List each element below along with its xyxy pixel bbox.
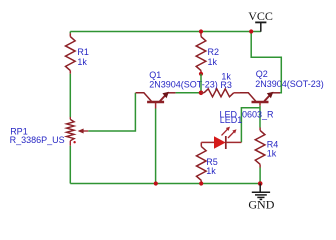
svg-text:R2: R2: [208, 47, 220, 57]
svg-text:LED1: LED1: [220, 115, 243, 125]
wire Q1 emitter to node: [176, 92, 199, 94]
potentiometer RP1: [67, 117, 75, 146]
wire left rail mid (R1 to RP1): [69, 74, 71, 117]
junction R2 top on rail: [199, 29, 203, 33]
svg-text:GND: GND: [248, 197, 274, 211]
svg-text:1k: 1k: [267, 148, 277, 158]
svg-text:VCC: VCC: [248, 9, 273, 23]
wire left rail lower (RP1 to bottom corner): [69, 146, 71, 184]
junction R5 bottom rail: [199, 181, 203, 185]
ground GND: [252, 184, 270, 200]
junction VCC branch on top rail: [249, 29, 253, 33]
LED emission arrow 2: [228, 129, 237, 138]
svg-text:0603_R: 0603_R: [242, 109, 274, 119]
resistor R5: [197, 142, 207, 183]
junction R2 bottom: [199, 72, 203, 76]
wire R2 bottom to emitter node: [200, 74, 202, 93]
wire Q2 emitter to VCC riser: [251, 32, 281, 93]
wire base node jog to LED cathode: [241, 108, 260, 143]
transistor Q1: [136, 92, 176, 109]
wire top rail: [70, 31, 260, 33]
svg-text:R_3386P_US: R_3386P_US: [10, 135, 65, 145]
svg-text:1k: 1k: [208, 57, 218, 67]
svg-text:1k: 1k: [77, 57, 87, 67]
LED emission arrow 1: [222, 127, 231, 136]
RP1 pin1 marker dot: [73, 141, 75, 143]
wire RP1 wiper to Q1 collector riser: [88, 93, 135, 131]
RP1 wiper arrow: [78, 129, 89, 134]
resistor R2: [196, 33, 206, 74]
junction ground node: [258, 181, 263, 186]
wire left rail upper (top corner to R1): [69, 32, 71, 34]
LED LED1: [201, 136, 241, 149]
wire bottom rail: [70, 183, 260, 185]
wire Q1 base to bottom rail: [155, 109, 157, 184]
junction Q1 base / bottom rail: [154, 181, 158, 185]
resistor R3: [201, 89, 240, 97]
svg-text:R1: R1: [77, 47, 89, 57]
svg-text:1k: 1k: [206, 166, 216, 176]
wire R4 bottom to rail: [259, 168, 261, 184]
wire Q2 base down to R4: [259, 106, 261, 128]
power flag VCC: [255, 22, 266, 31]
svg-text:Q2: Q2: [256, 69, 268, 79]
resistor R4: [255, 128, 265, 168]
junction node emitter/R3: [199, 91, 204, 96]
svg-text:2N3904(SOT-23): 2N3904(SOT-23): [255, 79, 324, 89]
svg-text:2N3904(SOT-23): 2N3904(SOT-23): [149, 80, 218, 90]
transistor Q2: [240, 92, 280, 106]
resistor R1: [66, 33, 76, 74]
svg-text:R3: R3: [220, 80, 232, 90]
